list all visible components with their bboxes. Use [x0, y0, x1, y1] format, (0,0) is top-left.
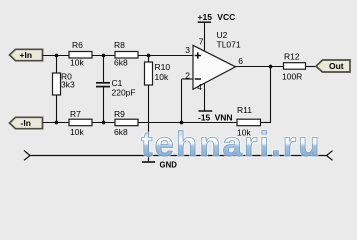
- junction dot rail/R10: [147, 154, 151, 158]
- junction dot node FB (pin 2 tee): [180, 121, 184, 125]
- svg-text:-In: -In: [21, 118, 31, 128]
- wire feedback vertical: [270, 67, 272, 124]
- svg-text:TL071: TL071: [217, 39, 241, 49]
- junction dot node B (C1 bottom): [102, 121, 106, 125]
- svg-text:C1: C1: [112, 78, 123, 88]
- wire +In tag to R6: [43, 55, 70, 57]
- svg-text:100R: 100R: [282, 71, 302, 81]
- connector Out: [316, 60, 350, 72]
- resistor R6: [69, 40, 92, 68]
- wire op-amp output to R12: [236, 66, 284, 68]
- watermark tehnari.ru: [141, 125, 321, 164]
- wire R9 to R11 (feedback node row): [138, 122, 237, 124]
- svg-text:+15: +15: [198, 12, 213, 22]
- svg-text:6k8: 6k8: [114, 127, 128, 137]
- svg-text:10k: 10k: [70, 127, 84, 137]
- junction dot node A (C1 top): [102, 54, 106, 58]
- resistor R9: [114, 109, 138, 137]
- rail right chevron: [327, 151, 333, 161]
- wire pin 2 stub horizontal: [182, 78, 194, 80]
- junction dot node A1 (R0 top): [55, 54, 59, 58]
- resistor R10: [145, 56, 171, 156]
- svg-text:10k: 10k: [70, 58, 84, 68]
- capacitor C1: [96, 56, 136, 123]
- svg-text:R8: R8: [114, 40, 125, 50]
- svg-text:10k: 10k: [155, 72, 169, 82]
- wire R12 to Out tag: [306, 66, 317, 68]
- svg-text:R7: R7: [70, 109, 81, 119]
- junction dot output node: [269, 65, 273, 69]
- svg-text:R11: R11: [237, 105, 252, 115]
- resistor R11: [237, 105, 261, 138]
- connector -In: [10, 117, 43, 128]
- resistor R0: [53, 56, 75, 123]
- svg-text:7: 7: [199, 37, 204, 47]
- svg-text:R9: R9: [114, 109, 125, 119]
- wire -In tag to R7: [43, 122, 70, 124]
- wire pin 7 to VCC: [204, 22, 206, 51]
- svg-text:-15: -15: [198, 113, 211, 123]
- resistor R7: [69, 109, 92, 137]
- connector +In: [10, 49, 43, 60]
- svg-text:R6: R6: [72, 40, 83, 50]
- ground rail wire: [30, 155, 327, 157]
- svg-text:3k3: 3k3: [61, 80, 75, 90]
- wire pin 2 stub vertical: [181, 79, 183, 123]
- wire R6 to R8: [92, 55, 115, 57]
- svg-text:+In: +In: [20, 50, 33, 60]
- svg-text:6: 6: [238, 56, 243, 66]
- power +15 VCC: [198, 12, 236, 22]
- junction dot node B1 (R0 bottom): [55, 121, 59, 125]
- rail left chevron: [24, 151, 30, 161]
- svg-text:Out: Out: [329, 61, 344, 71]
- resistor R12: [282, 52, 306, 82]
- svg-text:6k8: 6k8: [114, 58, 128, 68]
- wire R8 to op-amp pin 3: [138, 55, 193, 57]
- junction dot (R10 top): [147, 54, 151, 58]
- power -15 VNN: [198, 111, 233, 123]
- svg-text:4: 4: [197, 82, 202, 92]
- svg-text:220pF: 220pF: [112, 88, 136, 98]
- wire pin 4 to VNN: [204, 84, 206, 112]
- ground GND: [142, 156, 177, 170]
- svg-text:VNN: VNN: [215, 113, 233, 123]
- svg-text:3: 3: [185, 45, 190, 55]
- svg-text:VCC: VCC: [217, 12, 235, 22]
- resistor R8: [114, 40, 138, 68]
- svg-text:R12: R12: [284, 52, 300, 62]
- wire R11 to feedback corner: [261, 122, 271, 124]
- svg-text:2: 2: [185, 70, 190, 80]
- svg-text:tehnari.ru: tehnari.ru: [141, 125, 321, 164]
- op-amp U2 TL071: [193, 30, 241, 89]
- wire R7 to R9: [92, 122, 115, 124]
- svg-text:R10: R10: [155, 62, 171, 72]
